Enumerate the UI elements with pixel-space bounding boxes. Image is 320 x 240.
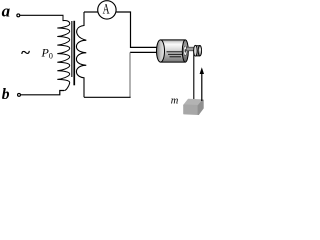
svg-text:m: m [171,95,179,106]
string from shaft to mass [193,50,195,100]
pulley knob on shaft [194,45,202,56]
svg-text:A: A [103,0,110,17]
motor hub on right face [184,46,188,56]
wire motor lower terminal [130,51,158,53]
motor right end face [182,40,188,62]
motor hub center [185,49,186,53]
wire ammeter to motor upper terminal [116,12,157,47]
mass m cube front face [184,105,198,114]
mass m cube right face [198,100,203,114]
svg-text:a: a [2,2,11,21]
svg-text:~: ~ [21,43,30,62]
ammeter A1 [98,1,116,19]
wire from primary coil bottom to terminal b [21,91,64,95]
wire secondary coil top to ammeter [84,11,98,13]
wire from terminal a to primary coil top [20,14,64,16]
secondary coil [76,12,86,97]
svg-text:P0: P0 [41,46,53,61]
transformer core right lamination [73,21,75,86]
motor M body [157,40,186,62]
terminal a [17,14,20,17]
motor shaft [187,47,195,51]
mass m cube top face [184,100,203,106]
arrow head [200,67,204,74]
motor vent lines [167,52,183,57]
arrow showing upward motion [201,71,203,101]
svg-text:b: b [2,86,10,103]
primary coil [57,15,69,91]
transformer core left lamination [71,21,72,77]
wire lower vertical gray segment [129,52,131,97]
wire bottom return to secondary coil [84,96,131,98]
terminal b [18,93,21,96]
